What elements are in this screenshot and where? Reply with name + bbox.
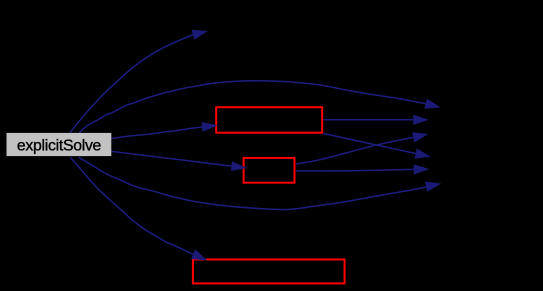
svg-text:explicitSolve: explicitSolve	[17, 138, 102, 155]
edge explicitSolve->node-top	[70, 30, 208, 133]
node red-box-3 (truncated callee, black label invisible)	[193, 260, 345, 284]
edge explicitSolve->red-box-3	[70, 157, 207, 260]
node red-box-1 (truncated callee, black label invisible)	[216, 107, 322, 133]
edge red-box-2->node-right-3	[296, 132, 428, 164]
edge red-box-2->node-right-5	[296, 164, 429, 174]
edge red-box-1->node-right-4	[324, 134, 431, 159]
edge red-box-1->node-right-2	[323, 115, 429, 125]
node explicitSolve (current node, grey)	[7, 133, 112, 156]
edge explicitSolve->node-right-1	[79, 81, 441, 133]
edge explicitSolve->red-box-2	[112, 151, 247, 171]
node red-box-2 (truncated callee, black label invisible)	[244, 158, 295, 183]
edge explicitSolve->node-right-6	[79, 157, 442, 209]
edge explicitSolve->red-box-1	[111, 122, 218, 139]
